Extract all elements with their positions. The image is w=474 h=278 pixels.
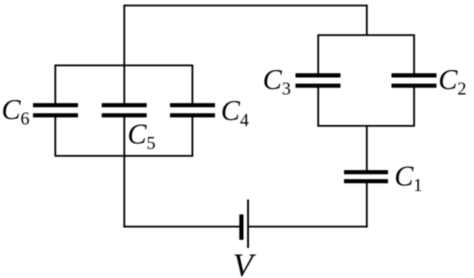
wire C1 to bottom corner <box>366 182 368 227</box>
wire bottom right segment (battery to right corner) <box>249 226 368 228</box>
wire left vertical upper (top wire to C5 top plate) <box>123 6 125 105</box>
wire left box top edge <box>55 64 194 66</box>
capacitor C1 plates <box>344 170 388 174</box>
wire C4 branch lower <box>191 116 193 156</box>
capacitor C3 plates <box>296 73 341 77</box>
wire top horizontal <box>123 5 367 7</box>
wire left vertical lower (C5 bottom plate to bottom wire) <box>123 116 125 227</box>
capacitor C2 plates <box>392 73 437 77</box>
capacitor C5 plates <box>102 103 147 107</box>
wire C2 branch lower <box>413 86 415 126</box>
capacitor C6 plates <box>33 103 78 107</box>
wire C2 branch upper <box>413 35 415 75</box>
wire right box to C1 <box>366 126 368 171</box>
wire C3 branch upper <box>317 35 319 75</box>
wire C3 branch lower <box>317 86 319 126</box>
wire bottom left segment (to battery) <box>123 226 240 228</box>
capacitor C4 plates <box>170 103 215 107</box>
wire right box top edge <box>317 34 415 36</box>
wire left box bottom edge <box>55 155 194 157</box>
battery V symbol: thick short negative plate <box>239 214 243 239</box>
wire C4 branch upper <box>191 65 193 104</box>
wire right vertical (top wire to right box) <box>366 6 368 36</box>
wire right box bottom edge <box>317 125 415 127</box>
wire C6 branch upper <box>54 65 56 104</box>
wire C6 branch lower <box>54 116 56 156</box>
battery V symbol: thin long positive plate <box>247 200 249 248</box>
